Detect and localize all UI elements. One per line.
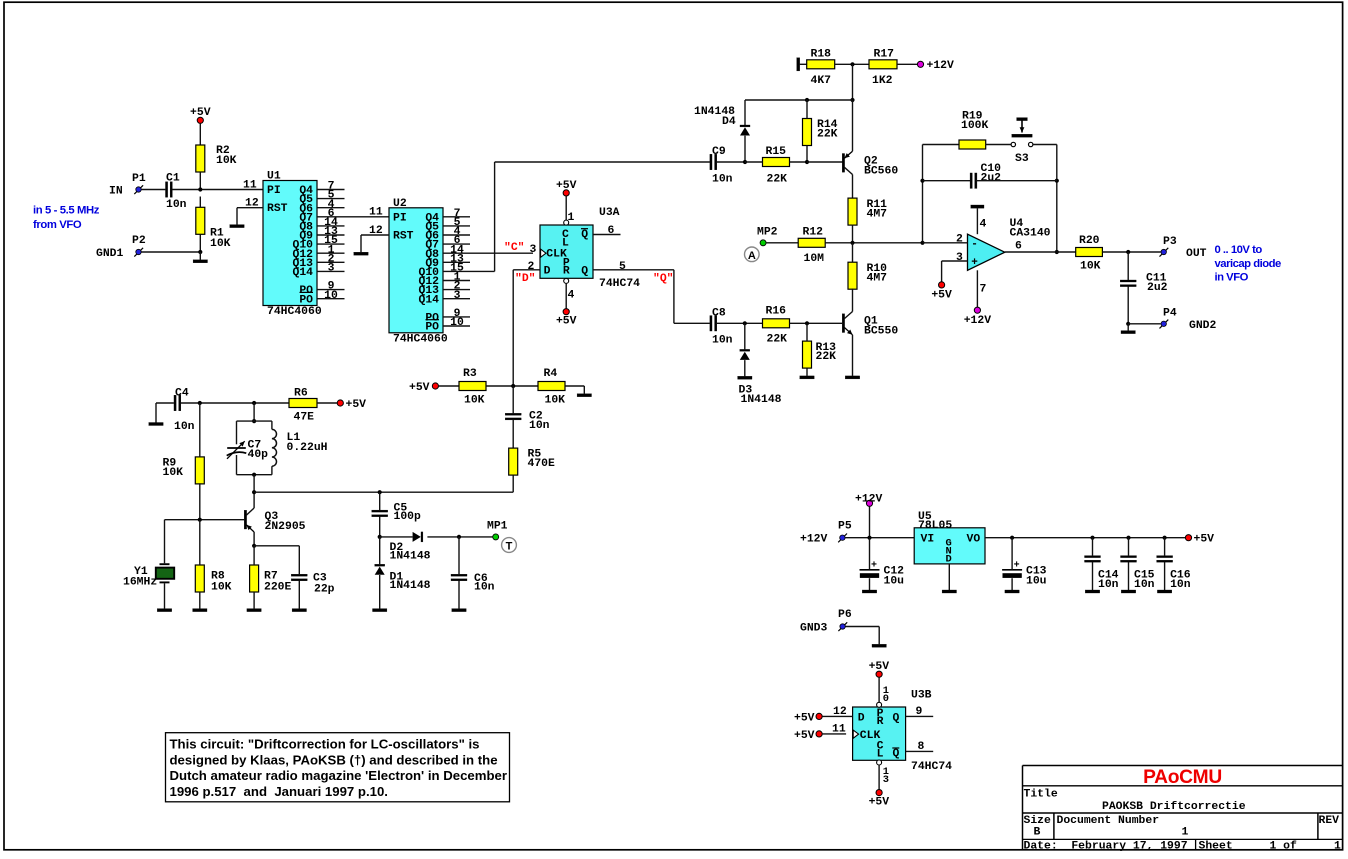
junction: [252, 473, 256, 477]
wire: [976, 208, 978, 234]
svg-text:10K: 10K: [545, 395, 566, 407]
wire: [806, 323, 808, 341]
wire: [822, 733, 846, 735]
wire: [1033, 144, 1057, 146]
label A (circle): [745, 247, 760, 262]
svg-text:Date: February 17, 1997: Date: February 17, 1997: [1024, 840, 1188, 852]
ground (D1): [373, 609, 387, 612]
svg-text:6: 6: [1015, 240, 1022, 252]
wire: [379, 492, 381, 510]
wire: [155, 403, 157, 423]
wire: [172, 189, 263, 191]
svg-text:Q: Q: [581, 229, 588, 241]
svg-text:R4: R4: [544, 368, 558, 380]
capacitor C2: [505, 413, 521, 415]
ground (C14): [1085, 590, 1099, 593]
svg-text:2u2: 2u2: [1147, 282, 1168, 294]
transistor Q2 BC560: [842, 154, 844, 173]
IC U1 74HC4060: [263, 181, 317, 306]
wire: [906, 715, 934, 717]
svg-text:74HC74: 74HC74: [911, 761, 952, 773]
wire: [495, 161, 710, 163]
svg-text:C4: C4: [175, 388, 189, 400]
junction: [920, 179, 924, 183]
svg-text:+5V: +5V: [409, 382, 430, 394]
ground (P6): [872, 644, 886, 647]
wire: [790, 322, 844, 324]
wire: [199, 197, 201, 208]
svg-text:+: +: [971, 257, 978, 269]
wire: [906, 750, 934, 752]
svg-text:R12: R12: [803, 226, 824, 238]
svg-text:0 .. 10V to: 0 .. 10V to: [1215, 244, 1263, 256]
svg-text:22K: 22K: [767, 334, 788, 346]
junction: [198, 250, 202, 254]
ground (R7): [247, 609, 261, 612]
IC U2 74HC4060: [389, 208, 443, 333]
wire: [1092, 562, 1094, 590]
svg-text:10u: 10u: [1026, 575, 1047, 587]
wire: [878, 627, 880, 645]
svg-text:R16: R16: [766, 306, 787, 318]
ground (R1): [193, 260, 207, 263]
capacitor C4: [174, 395, 176, 410]
resistor R1: [196, 207, 205, 234]
wire: [1102, 251, 1160, 253]
svg-text:2: 2: [956, 234, 963, 246]
wire: [199, 252, 201, 260]
power +5V (U3A pin1): [563, 190, 569, 196]
svg-text:10K: 10K: [211, 581, 232, 593]
svg-text:78L05: 78L05: [918, 520, 952, 532]
measure point MP2: [760, 240, 766, 246]
svg-text:74HC4060: 74HC4060: [393, 333, 448, 345]
wire: [593, 234, 621, 236]
resistor R7: [250, 565, 259, 592]
svg-text:22K: 22K: [817, 129, 838, 141]
wire: [253, 403, 255, 421]
wire: [807, 161, 843, 163]
svg-text:-: -: [971, 239, 978, 251]
resistor R8: [195, 565, 204, 592]
svg-text:10K: 10K: [464, 395, 485, 407]
wire: [744, 136, 746, 162]
capacitor C14 10n: [1085, 556, 1101, 558]
power +12V (R17): [917, 61, 923, 67]
svg-text:2u2: 2u2: [981, 173, 1002, 185]
svg-text:10n: 10n: [1134, 579, 1155, 591]
svg-text:R15: R15: [766, 146, 787, 158]
svg-text:designed by Klaas, PAoKSB (†): designed by Klaas, PAoKSB (†) and descri…: [170, 752, 498, 767]
power +5V (U5 out): [1185, 535, 1191, 541]
text box: circuit description: [166, 733, 510, 802]
ground (C6): [452, 609, 466, 612]
svg-text:2: 2: [528, 261, 535, 273]
wire: [1164, 538, 1166, 556]
power +5V (U4 pin3): [939, 282, 945, 288]
ground (Q1 emitter): [845, 376, 859, 379]
wire: [156, 402, 174, 404]
svg-text:C1: C1: [166, 173, 180, 185]
wire: [379, 575, 381, 609]
svg-text:7: 7: [980, 284, 987, 296]
svg-text:R17: R17: [874, 49, 895, 61]
wire: [141, 189, 165, 191]
svg-text:470E: 470E: [528, 458, 556, 470]
svg-text:8: 8: [918, 741, 925, 753]
svg-text:4M7: 4M7: [867, 209, 888, 221]
svg-text:"D": "D": [515, 273, 536, 285]
wire: [869, 506, 871, 537]
svg-text:GND1: GND1: [96, 248, 124, 260]
wire: [165, 519, 245, 521]
wire: [298, 546, 300, 574]
ground (R8): [193, 609, 207, 612]
svg-text:PAoCMU: PAoCMU: [1143, 767, 1222, 788]
svg-text:10: 10: [450, 317, 464, 329]
junction: [1126, 322, 1130, 326]
svg-text:3: 3: [956, 252, 963, 264]
ground (U5 GND): [942, 590, 956, 593]
junction: [867, 536, 871, 540]
wire: [513, 269, 540, 271]
svg-text:1996 p.517 and Januari 1997: 1996 p.517 and Januari 1997 p.10.: [170, 784, 388, 799]
wire: [439, 385, 460, 387]
svg-text:PI: PI: [267, 185, 281, 197]
wire: [766, 242, 798, 244]
svg-text:U3A: U3A: [599, 207, 620, 219]
wire: [985, 537, 1185, 539]
svg-text:4: 4: [568, 290, 575, 302]
svg-text:R: R: [877, 716, 884, 728]
U1 output pin stubs: [317, 189, 345, 191]
wire: [1057, 251, 1076, 253]
capacitor C5: [372, 510, 388, 512]
svg-text:D4: D4: [722, 116, 736, 128]
port P3 OUT: [1160, 248, 1169, 257]
svg-text:1: 1: [1182, 826, 1189, 838]
svg-text:74HC4060: 74HC4060: [267, 306, 322, 318]
svg-text:1 of: 1 of: [1270, 840, 1298, 852]
wire: [835, 63, 869, 65]
wire: [565, 385, 584, 387]
power +5V (U3B pin13): [876, 790, 882, 796]
resistor R20: [1076, 248, 1103, 257]
power +12V (P5 rail): [866, 500, 872, 506]
junction: [1010, 536, 1014, 540]
junction: [378, 490, 382, 494]
wire: [565, 196, 567, 220]
svg-text:11: 11: [243, 179, 257, 191]
svg-text:10K: 10K: [210, 238, 231, 250]
wire: [878, 765, 880, 790]
svg-text:10n: 10n: [474, 582, 495, 594]
svg-text:A: A: [748, 250, 756, 262]
IC U5 78L05: [914, 528, 985, 564]
junction: [850, 98, 854, 102]
svg-text:Title: Title: [1024, 789, 1058, 801]
svg-text:RST: RST: [393, 231, 414, 243]
svg-text:5: 5: [619, 261, 626, 273]
svg-text:100K: 100K: [961, 120, 989, 132]
wire: [512, 420, 514, 448]
junction: [378, 535, 382, 539]
svg-text:OUT: OUT: [1186, 248, 1207, 260]
wire: [583, 386, 585, 394]
wire: [254, 545, 299, 547]
inductor L1 0.22uH: [271, 421, 273, 429]
svg-text:IN: IN: [109, 186, 123, 198]
svg-text:Document Number: Document Number: [1057, 815, 1160, 827]
junction: [743, 160, 747, 164]
svg-text:+5V: +5V: [869, 661, 890, 673]
svg-text:Q: Q: [893, 712, 900, 724]
ground (R4): [577, 394, 591, 397]
junction: [1126, 536, 1130, 540]
wire: [852, 289, 854, 312]
svg-text:0: 0: [883, 693, 889, 705]
junction: [252, 490, 256, 494]
svg-text:11: 11: [369, 207, 383, 219]
svg-text:L: L: [562, 237, 569, 249]
svg-text:12: 12: [833, 706, 847, 718]
wire: [1128, 562, 1130, 590]
wire: [744, 100, 746, 125]
ground (C4): [149, 423, 163, 426]
capacitor C10: [970, 173, 972, 188]
svg-text:Sheet: Sheet: [1199, 840, 1233, 852]
wire: [458, 537, 460, 574]
svg-text:L: L: [877, 749, 884, 761]
ground (C13): [1005, 590, 1019, 593]
IC U3A 74HC74: [540, 225, 593, 278]
ground (C12): [862, 590, 876, 593]
wire: [745, 99, 853, 101]
svg-text:1N4148: 1N4148: [741, 394, 782, 406]
svg-text:Q14: Q14: [292, 267, 313, 279]
svg-text:10n: 10n: [712, 335, 733, 347]
svg-text:16MHz: 16MHz: [123, 577, 157, 589]
wire: [852, 335, 854, 376]
wire: [199, 592, 201, 609]
ground (U2 RST): [354, 252, 368, 255]
svg-text:10n: 10n: [529, 420, 550, 432]
label T (circle): [502, 538, 517, 553]
svg-text:in VFO: in VFO: [1215, 271, 1249, 283]
capacitor C6: [451, 574, 467, 576]
svg-text:11: 11: [832, 724, 846, 736]
wire: [1128, 323, 1161, 325]
diode D1 1N4148: [375, 564, 385, 566]
svg-text:R18: R18: [811, 49, 832, 61]
transistor Q1 BC550: [842, 314, 844, 333]
svg-text:P3: P3: [1163, 236, 1177, 248]
svg-text:MP2: MP2: [757, 226, 778, 238]
junction: [805, 98, 809, 102]
wire: [1127, 252, 1129, 280]
wire: [458, 581, 460, 609]
svg-text:Q14: Q14: [418, 294, 439, 306]
svg-text:U2: U2: [393, 198, 407, 210]
svg-text:P2: P2: [132, 235, 146, 247]
svg-text:BC560: BC560: [864, 165, 898, 177]
resistor R15: [763, 158, 790, 167]
svg-text:P6: P6: [838, 609, 852, 621]
wire: [806, 146, 808, 163]
U2 output pin stubs: [443, 216, 470, 218]
junction: [457, 535, 461, 539]
capacitor C1: [166, 182, 168, 197]
junction: [743, 321, 747, 325]
wire: [976, 270, 978, 307]
svg-text:+: +: [871, 560, 877, 571]
svg-text:R: R: [563, 265, 570, 277]
junction: [805, 160, 809, 164]
svg-text:T: T: [506, 541, 513, 553]
wire: [199, 172, 201, 190]
wire: [199, 123, 201, 145]
svg-text:22p: 22p: [314, 583, 335, 595]
svg-text:PO: PO: [425, 322, 439, 334]
wire: [717, 322, 763, 324]
wire: [1127, 286, 1129, 323]
svg-text:CA3140: CA3140: [1010, 228, 1051, 240]
junction: [1055, 179, 1059, 183]
svg-text:in 5 - 5.5 MHz: in 5 - 5.5 MHz: [33, 205, 100, 217]
svg-text:10: 10: [324, 290, 338, 302]
svg-text:0.22uH: 0.22uH: [287, 442, 328, 454]
svg-text:10n: 10n: [166, 199, 187, 211]
port P1 IN: [134, 185, 143, 194]
svg-text:+12V: +12V: [855, 493, 883, 505]
svg-text:6: 6: [608, 225, 615, 237]
svg-text:GND3: GND3: [800, 623, 828, 635]
resistor R2: [196, 145, 205, 172]
wire: [822, 715, 852, 717]
svg-text:+5V: +5V: [1194, 534, 1215, 546]
wire: [825, 242, 922, 244]
wire: [800, 63, 807, 65]
svg-text:40p: 40p: [248, 449, 269, 461]
diode D3 1N4148: [740, 349, 750, 351]
svg-text:1N4148: 1N4148: [390, 550, 431, 562]
diode D2 1N4148: [413, 532, 421, 542]
power +5V (U3B pin12): [816, 713, 822, 719]
svg-text:U3B: U3B: [911, 690, 932, 702]
junction: [1055, 250, 1059, 254]
wire: [254, 491, 513, 493]
svg-text:P4: P4: [1163, 308, 1177, 320]
wire: [869, 538, 871, 570]
svg-text:+12V: +12V: [800, 534, 828, 546]
resistor R5: [509, 448, 518, 475]
svg-text:+5V: +5V: [190, 107, 211, 119]
svg-text:BC550: BC550: [864, 326, 898, 338]
svg-text:VI: VI: [921, 534, 935, 546]
resistor R12: [798, 238, 825, 247]
diode D4 1N4148: [740, 125, 750, 127]
svg-text:R3: R3: [463, 368, 477, 380]
wire: [512, 475, 514, 492]
wire: [806, 100, 808, 119]
ground (U4 pin4): [971, 205, 984, 208]
svg-text:4K7: 4K7: [811, 75, 832, 87]
ground (R13): [800, 376, 814, 379]
junction: [850, 62, 854, 66]
svg-text:D: D: [946, 554, 952, 566]
wire: [141, 251, 200, 253]
wire: [237, 474, 272, 476]
wire: [360, 235, 362, 252]
svg-text:D: D: [544, 265, 551, 277]
title block grid: [1023, 765, 1343, 767]
wire: [1056, 145, 1058, 253]
svg-text:+5V: +5V: [931, 289, 952, 301]
wire: [845, 537, 914, 539]
svg-text:R20: R20: [1079, 235, 1100, 247]
svg-text:10K: 10K: [163, 467, 184, 479]
resistor R19: [959, 140, 986, 149]
wire: [317, 402, 337, 404]
capacitor C3: [291, 574, 307, 576]
svg-text:C9: C9: [712, 146, 726, 158]
svg-text:Size: Size: [1024, 815, 1052, 827]
ground (C16): [1157, 590, 1171, 593]
wire: [869, 578, 871, 590]
wire: [673, 270, 675, 324]
capacitor C9: [710, 154, 712, 169]
wire: [512, 386, 514, 413]
svg-text:10n: 10n: [712, 173, 733, 185]
capacitor C12 10u: [860, 569, 880, 571]
capacitor C11: [1120, 280, 1136, 282]
port P5 +12V: [838, 534, 847, 543]
wire: [379, 537, 381, 564]
U3A pin 1 bubble: [564, 220, 569, 225]
svg-text:3: 3: [530, 244, 537, 256]
wire: [878, 677, 880, 702]
svg-text:from VFO: from VFO: [33, 219, 82, 231]
wire: [486, 385, 538, 387]
svg-text:10u: 10u: [884, 575, 905, 587]
wire: [298, 581, 300, 609]
wire: [922, 145, 924, 243]
svg-text:"C": "C": [504, 242, 525, 254]
wire: [852, 100, 854, 151]
wire: [443, 270, 495, 272]
svg-text:47E: 47E: [294, 412, 315, 424]
wire: [1127, 324, 1129, 331]
wire: [1005, 251, 1057, 253]
svg-text:+5V: +5V: [794, 730, 815, 742]
ground (U1 RST): [230, 225, 244, 228]
transistor Q3 2N2905: [244, 510, 246, 529]
junction: [1126, 250, 1130, 254]
wire: [380, 536, 413, 538]
svg-text:220E: 220E: [264, 581, 292, 593]
svg-text:GND2: GND2: [1189, 320, 1217, 332]
svg-text:MP1: MP1: [487, 520, 508, 532]
svg-text:U1: U1: [267, 171, 281, 183]
resistor R16: [763, 319, 790, 328]
svg-text:P5: P5: [838, 521, 852, 533]
U3B pin 13 bubble: [877, 760, 882, 765]
wire: [852, 175, 854, 199]
svg-text:This circuit: "Driftcorrection: This circuit: "Driftcorrection for LC-os…: [170, 737, 480, 752]
wire: [379, 517, 381, 537]
port P6 GND3: [838, 622, 847, 631]
wire: [977, 180, 1057, 182]
